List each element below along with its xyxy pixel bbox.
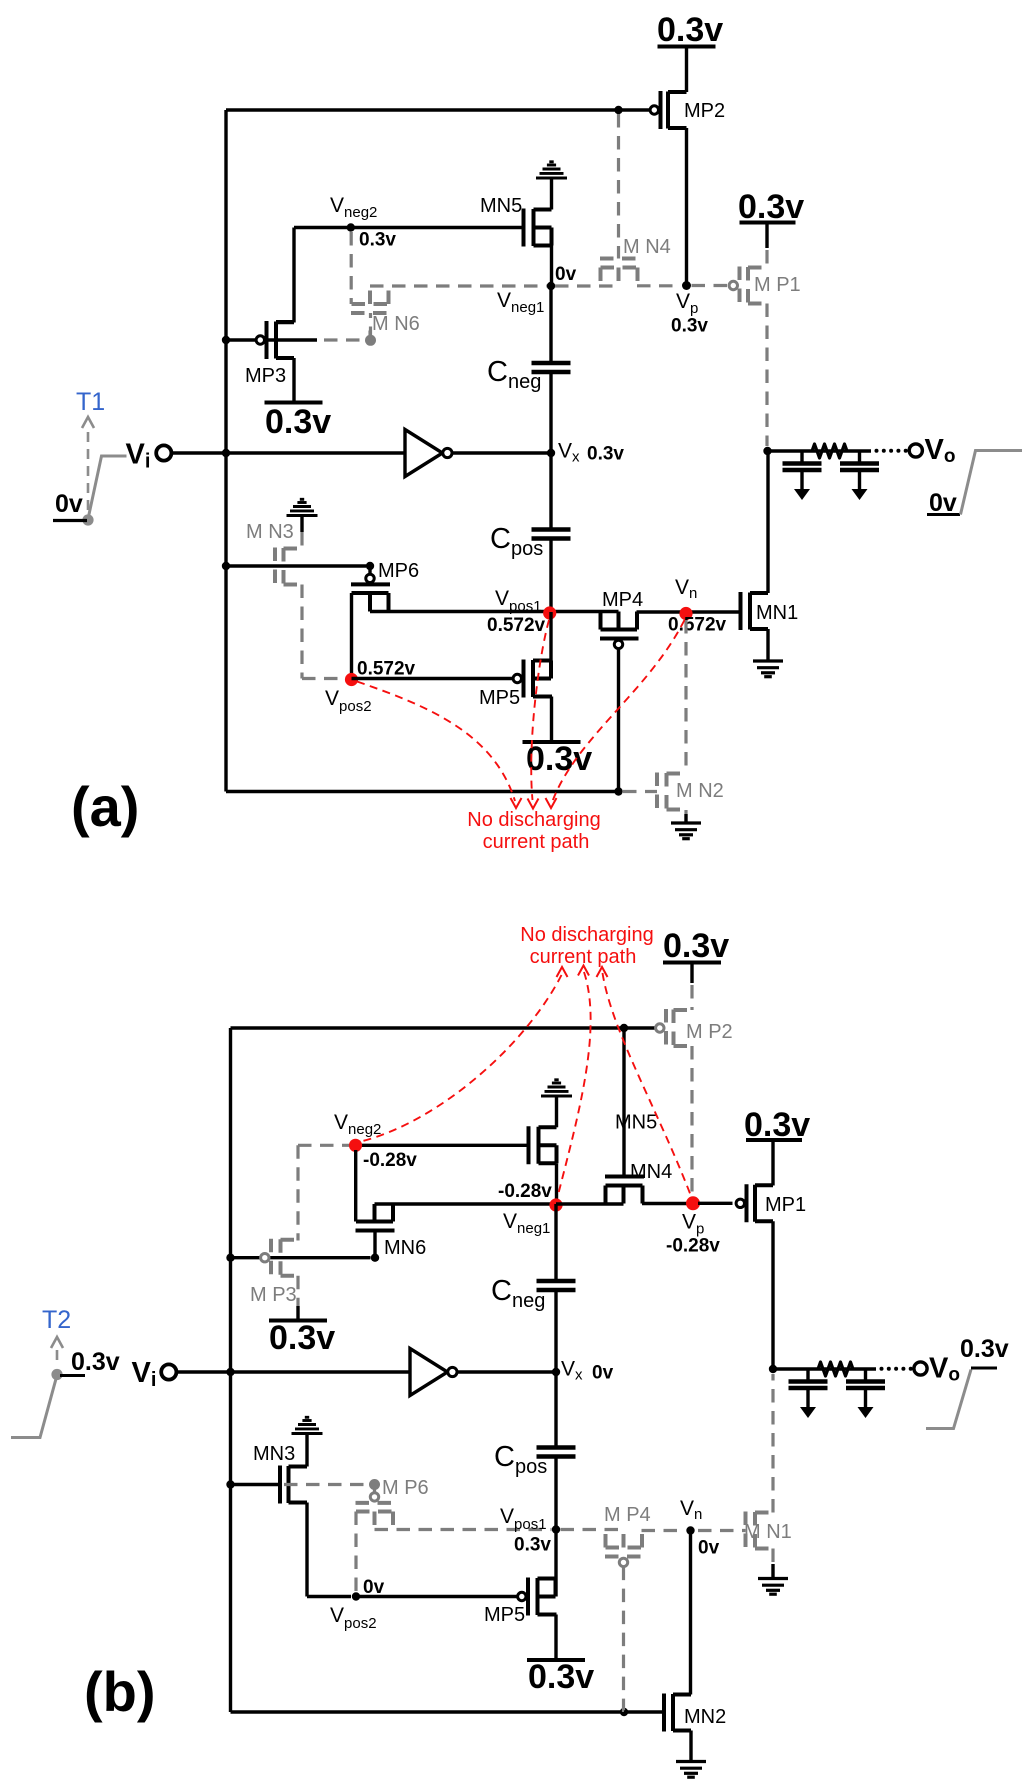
red arrowheads no-discharge (a) [511,798,522,808]
transistor MN2 (NMOS, gray dashed) [657,773,686,811]
wire MP5 source down to supply (b) [554,1615,557,1661]
svg-text:-0.28v: -0.28v [666,1236,720,1257]
wire Vpos1 down to MP5 drain (b) [554,1530,557,1597]
svg-text:0.3v: 0.3v [359,230,396,251]
wire Vn down to MN2 (gray dashed) [684,620,687,774]
svg-text:M N4: M N4 [623,236,671,258]
svg-text:Vp: Vp [682,1211,704,1238]
wire Vn down to MN2 drain (b) [689,1531,692,1695]
wire Cpos to Vpos1 (b) [554,1457,557,1530]
wire Vn row to MN1 gate (gray dashed) (b) [698,1529,746,1532]
supply 0.3v bar under MP3 (b) [269,1319,327,1323]
red dashed curve to Vp (b) [603,973,692,1196]
svg-text:0v: 0v [55,490,83,518]
svg-text:(b): (b) [84,1660,156,1723]
capacitor C load1 lead [800,451,803,464]
input trigger arrow (gray dashed, up) (b) [56,1350,59,1367]
svg-text:Vn: Vn [675,576,697,602]
node Vneg1 junction dot (b) [552,1200,560,1208]
wire MN4 gate from top rail (gray dashed) [617,114,620,259]
svg-text:Vx: Vx [558,440,580,466]
capacitor Cpos [532,530,571,539]
wire Cpos to Vpos1 [549,539,552,613]
transistor MP6 (PMOS, gray dashed, rotated gate-up) (b) [373,1485,376,1493]
svg-text:current path: current path [530,946,637,968]
red dashed curve to Vneg2 (b) [361,975,562,1142]
wire Vpos1 row left (gray dashed) (b) [375,1528,552,1531]
wire Vi to left border [172,451,405,454]
wire MN3 gate row from border (b) [231,1483,281,1486]
wire supply to MP2 source [685,47,688,93]
node Vpos1 junction dot [547,607,555,615]
transistor MP4 (PMOS, gray dashed, rotated gate-down) (b) [605,1530,644,1557]
svg-text:0.572v: 0.572v [357,659,416,680]
wire supply to MP1 source (gray dashed) [765,223,768,249]
wire MN2 source to ground (b) [689,1731,692,1762]
transistor MP1 (PMOS, gray dashed) [740,267,768,305]
svg-text:M N1: M N1 [744,1521,792,1543]
ground below MN2 (b) [676,1762,706,1778]
node Vneg2 junction dot [347,223,355,231]
node output junction dot (b) [769,1365,777,1373]
wire MP3 source down to supply (gray dashed) (b) [296,1276,299,1306]
ground below MN2 [671,823,701,839]
wire gate link MP3 to MN6 (gray dashed) [324,338,366,341]
capacitor C load1 lead (b) [806,1369,809,1382]
input terminal circle Vi [156,445,171,460]
svg-text:0.3v: 0.3v [657,11,723,49]
svg-text:0.3v: 0.3v [265,403,331,441]
figure (a) bottom rail wire [226,790,619,793]
node output junction dot [763,447,771,455]
wire MP3 drain up to Vneg2 row [276,228,294,323]
capacitor C load2 lead [858,451,861,464]
transistor MP2 (PMOS) [661,91,687,129]
wire MN5 drain up to ground [550,178,553,210]
svg-text:0v: 0v [929,489,957,517]
svg-text:-0.28v: -0.28v [498,1181,552,1202]
ground arrow under C load2 [852,489,868,500]
wire MP4 right stub to Vn (gray dashed) (b) [642,1529,686,1532]
wire supply to MP1 source (b) [771,1140,774,1186]
svg-text:Vx: Vx [561,1358,583,1384]
svg-text:0v: 0v [592,1363,614,1384]
svg-text:T2: T2 [42,1306,71,1334]
svg-text:M N6: M N6 [372,313,420,335]
node Vx junction dot (b) [552,1368,560,1376]
wire MN3 drain to ground (b) [305,1434,308,1467]
svg-text:Vneg1: Vneg1 [497,289,544,316]
transistor MN1 (NMOS, gray dashed) (b) [746,1512,774,1550]
svg-text:Vpos2: Vpos2 [330,1604,377,1632]
input terminal circle Vi (b) [161,1364,176,1379]
svg-text:MP6: MP6 [378,560,419,582]
dotted link to Vo (b) [880,1367,884,1371]
wire Vneg2 left link (gray dashed) (b) [298,1145,349,1240]
node Vp red dot (b) [686,1196,700,1210]
node Vpos2 red dot [345,673,358,686]
svg-text:0.3v: 0.3v [671,316,708,337]
output terminal circle Vo [909,444,922,457]
svg-text:MN2: MN2 [684,1706,726,1728]
node: junction dot border/MP3 gate (b) [226,1254,234,1262]
capacitor C load2 [840,464,879,471]
wire supply to MP2 source (gray dashed) (b) [690,963,693,984]
node: junction dot top rail / MN4 gate [614,106,622,114]
wire MP6 gate row from border [226,564,366,567]
wire Vx to Cpos (b) [554,1372,557,1448]
red dashed curve from Vpos1 [531,620,549,800]
svg-text:0.3v: 0.3v [960,1335,1009,1363]
wire MN6 source to Vneg1 (b) [375,1202,552,1205]
wire Vi to left border (b) [177,1370,410,1373]
node Vn junction dot [682,608,690,616]
svg-text:current path: current path [483,831,590,853]
transistor MP6 (PMOS, rotated gate-up) [368,566,371,574]
wire Vpos2 row to MP5 gate [352,677,515,680]
wire Vneg2 to MN6 drain (b) [354,1150,357,1222]
capacitor C load1 (b) [789,1382,828,1389]
svg-text:No discharging: No discharging [467,809,600,831]
svg-text:M N3: M N3 [246,521,294,543]
wire MN2 source to ground (gray dashed) [684,810,687,814]
transistor MN4 (NMOS, gray dashed, rotated gate-up) [600,259,639,286]
wire Vp to MP1 gate (gray dashed) [692,284,729,287]
svg-text:MN6: MN6 [384,1237,426,1259]
ground above MN5 (b) [541,1080,572,1096]
wire gate link MN3 to MP6 (gray dashed) (b) [284,1483,370,1486]
node: junction dot top rail / MN4 gate (b) [620,1024,628,1032]
input waveform dot (gray) (b) [51,1369,62,1380]
wire MN1 drain up to output node (gray dashed) (b) [771,1374,774,1513]
wire Vneg1 row: dot to MN4 (b) [556,1202,624,1205]
wire output row (b) [773,1367,876,1370]
inverter U1 (b) [410,1349,448,1396]
node: junction dot bottom rail / MP4-MN2 gates (b) [620,1708,628,1716]
transistor MN5 (NMOS) (b) [529,1126,557,1164]
wire MN3 drain to ground (black part) [300,516,303,532]
input trigger arrow (gray dashed, up) [87,432,90,514]
node: junction dot border/MP3 gate [222,336,230,344]
ground below MN1 (b) [758,1579,788,1595]
resistor R filter (b) [818,1362,853,1376]
figure (b) top rail wire to MP2 gate [231,1026,656,1029]
svg-text:MP2: MP2 [684,100,725,122]
red dashed curve from Vpos2 [357,682,515,802]
node Vn red dot [679,607,692,620]
svg-text:0.3v: 0.3v [528,1658,594,1696]
svg-text:Vneg1: Vneg1 [503,1210,550,1237]
wire MP4 gate down to bottom rail (gray dashed) (b) [622,1567,625,1712]
red dashed curve from Vn [553,620,685,801]
node Vpos1 junction dot (b) [552,1525,560,1533]
transistor MN3 (NMOS) (b) [280,1466,307,1504]
wire MN1 source down to ground (gray dashed) (b) [771,1549,774,1565]
svg-text:MP5: MP5 [484,1604,525,1626]
wire Vx to Cpos [549,453,552,530]
output waveform high level line (b) [971,1367,997,1370]
transistor MN6 (NMOS, rotated gate-down) (b) [373,1231,376,1258]
svg-text:Vneg2: Vneg2 [330,194,377,221]
node: junction dot Vi/border [222,449,230,457]
transistor MN5 (NMOS) [524,209,552,247]
wire MN3 source down to Vpos2 (b) [307,1503,351,1597]
wire MP3 gate from border [226,338,317,341]
output terminal circle Vo (b) [914,1362,927,1375]
svg-text:0v: 0v [698,1538,720,1559]
svg-text:0.3v: 0.3v [587,444,624,465]
transistor MN4 (NMOS, rotated gate-up) (b) [605,1177,644,1204]
wire MN5 source down to Vneg1 (b) [555,1163,558,1204]
wire MN1 source down to ground [766,629,769,661]
wire inverter output to Vx (b) [457,1370,556,1373]
svg-text:0.3v: 0.3v [269,1319,335,1357]
dotted link to Vo [875,449,879,453]
svg-text:No discharging: No discharging [520,924,653,946]
svg-text:M P6: M P6 [382,1477,429,1499]
resistor R filter [812,444,847,458]
figure (b) outer left border wire [229,1028,232,1712]
wire Vneg1 to Cneg [549,286,552,363]
wire Vneg2 row (b) [356,1144,529,1147]
wire Vpos2 row to MP5 gate (b) [356,1595,519,1598]
svg-text:MP4: MP4 [602,589,643,611]
node Vneg2 red dot (b) [349,1139,362,1152]
ground arrow under C load1 (b) [800,1407,816,1418]
node Vn junction dot (b) [686,1526,694,1534]
svg-text:0.3v: 0.3v [526,740,592,778]
wire MP6 drain down to Vpos2 [350,593,353,679]
node Vx junction dot [547,449,555,457]
node: junction dot border/MP6 gate row [222,562,230,570]
wire Vpos1 down to MP5 drain [549,612,552,679]
transistor MP4 (PMOS, rotated gate-down) [600,612,639,639]
wire Vp to MP1 gate (b) [698,1202,733,1205]
svg-text:Vn: Vn [680,1497,702,1523]
wire Cneg to Vx [549,372,552,453]
capacitor C load2 (b) [846,1382,885,1389]
node: junction dot Vi/border (b) [226,1368,234,1376]
svg-text:0.3v: 0.3v [663,927,729,965]
transistor MN2 (NMOS) (b) [664,1694,691,1732]
output waveform ramp (gray) (b) [926,1370,971,1429]
svg-text:(a): (a) [71,775,139,838]
wire MP4 gate down to bottom rail [617,649,620,792]
capacitor Cneg [532,363,571,372]
svg-text:M P3: M P3 [250,1284,297,1306]
node Vpos2 junction dot (b) [352,1592,360,1600]
input waveform high level line (b) [60,1374,85,1377]
node Vpos2 junction dot [347,674,355,682]
ground arrow under C load1 [794,489,810,500]
wire MN2 gate from rail dot (gray dashed) [623,790,657,793]
svg-text:MN3: MN3 [253,1443,295,1465]
transistor MN1 (NMOS) [741,592,769,630]
input waveform low level line [53,519,87,522]
output waveform ramp (gray) [961,451,1023,515]
wire MN2 gate from rail dot (b) [624,1710,664,1713]
wire MN6 source to Vneg1 (gray dashed) [370,284,547,287]
transistor MP2 (PMOS, gray dashed) (b) [666,1009,692,1047]
svg-text:Vo: Vo [925,434,956,467]
wire MP3 source down to supply [276,358,294,403]
svg-text:MN5: MN5 [480,195,522,217]
svg-text:Vpos2: Vpos2 [325,687,372,715]
node MP6 gate dot (gray) (b) [369,1479,380,1490]
input waveform ramp (gray) [88,456,127,519]
node: junction dot border/MN3 gate row (b) [226,1480,234,1488]
ground above MN3 (b) [292,1417,323,1433]
ground arrow under C load2 (b) [858,1407,874,1418]
capacitor C load2 lead (b) [864,1369,867,1382]
wire MN3 source down to Vpos2 (gray dashed) [302,585,345,679]
svg-text:Vneg2: Vneg2 [334,1111,381,1138]
wire Vneg2 row [294,226,524,229]
svg-text:Vo: Vo [929,1353,960,1386]
wire Vneg1 row: MN4 to Vp (gray dashed) [637,284,681,287]
wire MN5 source down to Vneg1 [550,246,553,287]
svg-text:MP5: MP5 [479,687,520,709]
transistor MP3 (PMOS) [267,321,295,359]
svg-text:0.572v: 0.572v [487,615,546,636]
inverter U1 [405,430,443,477]
node MN6 gate dot (gray) [369,331,372,337]
ground below MN1 [753,661,783,677]
svg-text:MP3: MP3 [245,365,286,387]
ground above MN5 [536,162,567,178]
svg-text:M P4: M P4 [604,1504,651,1526]
supply 0.3v bar under MP3 [265,401,323,405]
transistor MP5 (PMOS) [524,660,553,698]
supply 0.3v bar under MP5 [523,740,581,744]
node: junction dot bottom rail / MP4-MN2 gates [614,787,622,795]
svg-text:0.3v: 0.3v [738,188,804,226]
wire Vn row to MN1 gate [637,610,741,613]
output waveform low level line [927,513,960,516]
node Vneg1 junction dot [547,282,555,290]
svg-text:Vi: Vi [126,439,151,473]
svg-text:M P1: M P1 [754,274,801,296]
svg-text:T1: T1 [76,388,105,416]
svg-text:0.3v: 0.3v [514,1535,551,1556]
svg-text:Vi: Vi [132,1357,157,1391]
svg-text:M N2: M N2 [676,780,724,802]
node Vpos1 red dot [543,606,556,619]
svg-text:MN1: MN1 [756,602,798,624]
wire Vpos1 dot to MP4 (gray dashed) (b) [561,1528,624,1531]
figure (a) top rail wire to MP2 gate [226,108,651,111]
wire MP2 drain down to Vp [685,128,688,286]
figure (b) bottom rail wire [231,1710,625,1713]
capacitor C load1 [783,464,822,471]
svg-text:M P2: M P2 [686,1021,733,1043]
wire MP2 drain down to Vp (gray dashed) (b) [690,1046,693,1198]
wire MN1 drain up to output node [766,451,769,593]
figure (a) outer left border wire [224,110,227,792]
capacitor Cneg (b) [537,1281,576,1290]
transistor MP3 (PMOS, gray dashed) (b) [271,1239,298,1277]
transistor MP1 (PMOS) (b) [747,1184,774,1222]
wire MP1 drain down to output node (b) [771,1221,774,1369]
input waveform start dot (gray) [82,514,93,525]
wire MP1 drain down to output node (gray dashed) [765,304,768,447]
input waveform ramp (gray) (b) [11,1377,57,1438]
node Vneg1 red dot (b) [549,1198,562,1211]
ground above MN3 [287,499,318,515]
svg-text:-0.28v: -0.28v [363,1150,417,1171]
wire inverter output to Vx [452,451,551,454]
node MN6 gate dot (b) [371,1254,379,1262]
wire MP6 drain down to Vpos2 (gray dashed) (b) [354,1512,357,1593]
wire Vneg1 to Cneg (b) [554,1204,557,1281]
red dashed curve to Vneg1 (b) [558,972,591,1197]
supply 0.3v bar under MP5 (b) [527,1658,585,1662]
transistor MP5 (PMOS) (b) [528,1578,557,1616]
svg-text:MN4: MN4 [630,1161,672,1183]
red arrowheads no-discharge (b) [557,967,568,977]
svg-text:Vp: Vp [676,290,698,317]
wire Vneg1 row: MN4 to Vp (b) [642,1202,687,1205]
svg-text:0.3v: 0.3v [71,1348,120,1376]
wire Vneg2 to MN6 drain (gray dashed) [350,232,353,304]
node MP6 gate dot [366,562,374,570]
svg-text:0v: 0v [555,264,577,285]
svg-text:MP1: MP1 [765,1194,806,1216]
wire Cneg to Vx (b) [554,1290,557,1372]
wire MP3 gate row (b) [231,1256,371,1259]
node Vp junction dot [682,281,691,290]
wire MN5 drain up to ground (b) [555,1096,558,1127]
wire Vneg1 row: dot to MN4 (gray dashed) [555,284,619,287]
capacitor Cpos (b) [537,1448,576,1457]
wire Vpos1 row (MP6 to MP4) [370,610,619,613]
transistor MN3 (NMOS, gray dashed) [300,532,303,549]
svg-text:MN5: MN5 [615,1112,657,1134]
wire output row [768,449,872,452]
wire MN4 gate from top rail (b) [622,1028,625,1177]
transistor MN6 (NMOS, gray dashed, rotated gate-down) [369,313,372,340]
wire MP5 source down to supply [550,697,553,743]
